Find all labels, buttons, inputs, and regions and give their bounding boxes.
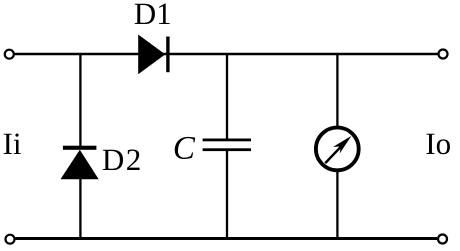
diode D1 <box>138 35 169 75</box>
label Io <box>426 134 450 155</box>
wire top horizontal <box>15 53 438 56</box>
terminal bottom-right <box>438 235 447 244</box>
label Ii <box>4 133 21 154</box>
wire D2 branch vertical <box>79 54 81 147</box>
capacitor C <box>203 139 251 152</box>
wire meter branch vertical <box>336 54 338 128</box>
label D1 <box>135 4 170 25</box>
wire capacitor branch vertical <box>226 54 228 140</box>
terminal top-left <box>5 50 14 59</box>
terminal top-right <box>439 50 448 59</box>
label D2 <box>103 149 140 170</box>
diode D2 <box>61 146 99 180</box>
terminal bottom-left <box>6 235 15 244</box>
meter M1 (circle with arrow) <box>316 127 359 170</box>
label C <box>175 137 195 159</box>
wire bottom horizontal <box>16 237 438 240</box>
